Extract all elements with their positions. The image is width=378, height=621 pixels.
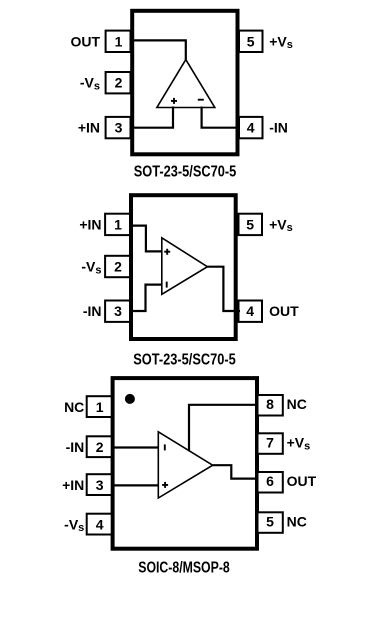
svg-text:1: 1 [115,33,123,49]
pin 4 box (U1 -IN) [239,117,263,138]
svg-text:+IN: +IN [78,120,100,136]
svg-text:5: 5 [266,514,274,530]
IC body U2 SOT-23-5 (middle package) [131,195,236,339]
pin label -IN (U1 pin 4) [269,120,288,136]
svg-text:-IN: -IN [83,303,102,319]
op-amp A2 (triangle pointing right) [162,238,208,294]
svg-text:OUT: OUT [269,303,299,319]
IC body U1 SOT-23-5 (top package) [132,11,237,155]
pin 1 indicator dot [125,394,135,404]
svg-text:4: 4 [96,516,104,532]
wire pin 3 to op-amp A2 - input [133,285,161,311]
pin label +Vs (U3 pin 7) [287,435,311,453]
op-amp A1 (triangle pointing up) [157,60,215,108]
pin 1 box (U2 +IN) [105,214,130,235]
svg-text:1: 1 [114,216,122,232]
pin label OUT (U3 pin 6) [287,473,317,489]
svg-text:4: 4 [247,120,255,136]
pin 4 box (U2 OUT) [239,301,263,322]
pin label +Vs (U1 pin 5) [269,33,293,51]
pin label +IN (U1 pin 3) [78,120,100,136]
caption SOT-23-5/SC70-5 (middle) [133,351,236,368]
pin 1 box (U1 OUT) [106,31,131,52]
svg-text:SOT-23-5/SC70-5: SOT-23-5/SC70-5 [134,163,237,180]
pin label NC (U3 pin 5) [287,513,307,529]
svg-text:7: 7 [266,435,274,451]
svg-text:2: 2 [115,75,123,91]
svg-text:2: 2 [114,259,122,275]
svg-text:NC: NC [287,513,307,529]
wire pin 3 to op-amp A1 + input [133,107,173,128]
caption SOT-23-5/SC70-5 (top) [134,163,237,180]
pin 1 box (U3 NC) [87,396,112,417]
svg-text:5: 5 [247,33,255,49]
svg-text:3: 3 [114,303,122,319]
pin 2 box (U2 -Vs) [105,256,130,277]
pin label -IN (U2 pin 3) [83,303,102,319]
pin label -Vs (U1 pin 2) [80,75,100,93]
svg-text:4: 4 [246,303,254,319]
svg-text:3: 3 [96,477,104,493]
wire pin 3 to op-amp A3 + input [112,484,158,486]
pin label NC (U3 pin 1) [64,399,84,415]
wire op-amp A3 output to pin 6 [213,465,257,478]
pin label +Vs (U2 pin 5) [269,216,293,234]
svg-text:OUT: OUT [287,473,317,489]
svg-text:NC: NC [64,399,84,415]
wire pin 1 to op-amp A2 + input [133,226,161,252]
pin 3 box (U1 +IN) [106,117,131,138]
wire pin 2 to op-amp A3 - input [112,446,158,448]
pin 5 box (U2 +Vs) [239,214,263,235]
svg-text:-IN: -IN [269,120,288,136]
svg-text:+IN: +IN [79,216,101,232]
pin 3 box (U2 -IN) [105,301,130,322]
IC body U3 SOIC-8/MSOP-8 (bottom package) [113,378,257,549]
pin 2 box (U3 -IN) [87,436,112,457]
pin 4 box (U3 -Vs) [87,514,112,535]
pin 6 box (U3 OUT) [258,472,283,493]
svg-text:NC: NC [287,396,307,412]
wire op-amp A1 - input to pin 4 [202,107,240,128]
pin 3 box (U3 +IN) [87,474,112,495]
pin 2 box (U1 -Vs) [106,72,131,93]
wire pin 8 to op-amp A3 top edge [189,405,257,452]
svg-text:2: 2 [96,439,104,455]
svg-text:8: 8 [266,396,274,412]
pin label OUT (U2 pin 4) [269,303,299,319]
pin 5 box (U1 +Vs) [239,31,263,52]
pin label -Vs (U2 pin 2) [81,259,101,277]
pin label +IN (U3 pin 3) [62,477,84,493]
svg-text:-IN: -IN [66,439,85,455]
wire pin 1 to op-amp A1 output [133,40,186,59]
wire op-amp A2 output to pin 4 [207,267,240,311]
pin 7 box (U3 +Vs) [258,433,283,454]
pin label +IN (U2 pin 1) [79,216,101,232]
pin label -IN (U3 pin 2) [66,439,85,455]
svg-text:6: 6 [266,473,274,489]
pin 5 box (U3 NC) [258,512,283,533]
svg-text:+IN: +IN [62,477,84,493]
svg-text:SOIC-8/MSOP-8: SOIC-8/MSOP-8 [138,560,230,577]
pin label NC (U3 pin 8) [287,396,307,412]
pin label -Vs (U3 pin 4) [64,516,84,534]
pin label OUT (U1 pin 1) [70,33,100,49]
svg-text:SOT-23-5/SC70-5: SOT-23-5/SC70-5 [133,351,236,368]
caption SOIC-8/MSOP-8 (bottom) [138,560,230,577]
op-amp A3 (triangle pointing right) [158,432,212,498]
svg-text:1: 1 [96,399,104,415]
svg-text:3: 3 [115,120,123,136]
svg-text:OUT: OUT [70,33,100,49]
pin 8 box (U3 NC) [258,395,283,416]
svg-text:5: 5 [246,216,254,232]
